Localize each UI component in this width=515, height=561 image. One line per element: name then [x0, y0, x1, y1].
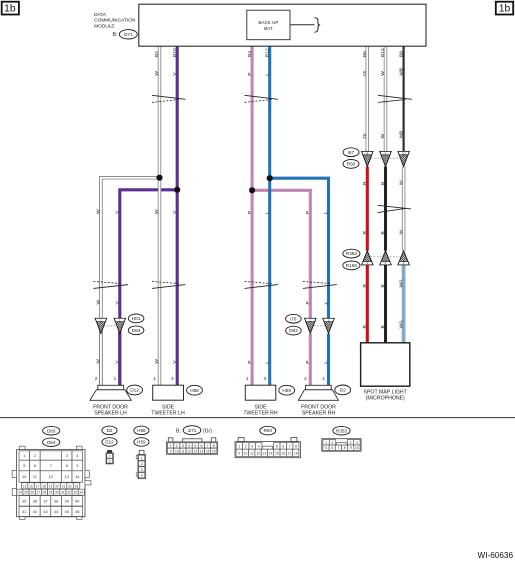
svg-text:3: 3	[66, 453, 68, 458]
wire WB from module pin B8 to joint connector i57	[403, 46, 405, 151]
svg-text:L: L	[264, 361, 270, 364]
svg-text:2: 2	[95, 376, 98, 381]
svg-text:L: L	[323, 211, 329, 214]
svg-text:1: 1	[153, 376, 156, 381]
connector pinout label D12	[102, 438, 117, 447]
dashed tie line H01 connectors	[101, 325, 120, 327]
svg-text:21: 21	[62, 484, 66, 488]
junction node L branch	[267, 175, 273, 181]
svg-text:39: 39	[65, 498, 69, 503]
inline connector H01/D84 terminal V	[114, 318, 125, 333]
svg-text:10: 10	[402, 151, 406, 155]
connector pinout R353	[322, 439, 361, 452]
svg-text:9: 9	[350, 446, 352, 450]
connector ref R353	[343, 249, 360, 258]
svg-text:P: P	[305, 361, 311, 364]
svg-text:B12: B12	[264, 48, 270, 57]
svg-text:43: 43	[43, 509, 47, 514]
svg-text:17: 17	[36, 484, 40, 488]
svg-text:D12: D12	[130, 388, 139, 393]
svg-text:8: 8	[295, 444, 297, 448]
connector ref H59	[279, 385, 295, 395]
twisted-pair symbol P/L speaker RH	[303, 281, 337, 288]
connector pinout D83/D84 grid	[12, 446, 91, 519]
junction node P branch	[249, 187, 255, 193]
svg-text:32: 32	[67, 491, 71, 495]
svg-text:W: W	[96, 209, 102, 214]
svg-text:3: 3	[182, 444, 184, 448]
svg-text:10: 10	[244, 451, 248, 455]
svg-text:7: 7	[50, 463, 52, 468]
twisted-pair symbol W/WB upper	[378, 95, 412, 102]
wire R from connector R50 to connector R353	[366, 167, 369, 251]
svg-text:15: 15	[206, 449, 210, 453]
svg-text:W: W	[154, 209, 160, 214]
svg-text:W/L: W/L	[398, 320, 404, 329]
svg-text:6: 6	[331, 446, 333, 450]
connector pinout R50	[235, 437, 301, 457]
connector pinout label D83	[43, 426, 60, 435]
connector pinout i271	[167, 438, 218, 455]
svg-text:SPOT MAP LIGHT(MICROPHONE): SPOT MAP LIGHT(MICROPHONE)	[364, 390, 408, 402]
svg-text:7: 7	[207, 444, 209, 448]
svg-text:28: 28	[43, 491, 47, 495]
svg-text:16: 16	[212, 449, 216, 453]
connector pinout label D2	[102, 426, 117, 435]
connector ref i57	[343, 148, 359, 157]
svg-text:B4: B4	[247, 51, 253, 57]
svg-text:35: 35	[22, 498, 26, 503]
svg-text:D84: D84	[47, 440, 56, 445]
svg-text:16: 16	[29, 484, 33, 488]
svg-text:i271: i271	[188, 428, 197, 433]
svg-text:8: 8	[344, 446, 346, 450]
connector pinout H58/H59	[136, 450, 145, 478]
wire V from module pin B10 to side tweeter LH pin 3	[176, 46, 179, 385]
svg-text:20: 20	[55, 484, 59, 488]
svg-text:8: 8	[213, 444, 215, 448]
svg-text:33: 33	[73, 491, 77, 495]
spot map light (microphone) box	[361, 343, 410, 386]
svg-text:12: 12	[256, 451, 260, 455]
svg-text:6: 6	[34, 463, 36, 468]
wire W from module pin B14 to joint connector i57	[384, 46, 387, 151]
component pin numbers	[95, 376, 326, 381]
svg-text:1: 1	[325, 441, 327, 445]
svg-text:W: W	[96, 359, 102, 364]
dashed tie line i57 connectors	[367, 157, 403, 159]
connector ref R166	[343, 261, 360, 270]
svg-text:L: L	[323, 361, 329, 364]
svg-text:30: 30	[55, 491, 59, 495]
svg-text:BACK UP: BACK UP	[258, 20, 278, 25]
svg-text:4: 4	[188, 444, 190, 448]
wire B from connector R166 to microphone	[384, 265, 387, 343]
svg-text:37: 37	[43, 498, 47, 503]
wire Or from module pin B6 to joint connector i57	[366, 46, 369, 151]
svg-text:(Gr): (Gr)	[203, 428, 212, 434]
wire W branch to front door speaker LH pin 2	[101, 178, 160, 385]
svg-text:H58: H58	[190, 388, 199, 393]
svg-text:i57: i57	[348, 150, 355, 155]
svg-text:P: P	[305, 211, 311, 214]
svg-text:B: B	[380, 182, 386, 185]
svg-text:FRONT DOORSPEAKER RH: FRONT DOORSPEAKER RH	[301, 404, 336, 416]
junction node V branch	[174, 187, 180, 193]
wire W from module pin B2 to side tweeter LH pin 1	[158, 46, 161, 385]
svg-text:38: 38	[54, 498, 58, 503]
wire V below connector D84 to speaker LH	[118, 334, 121, 385]
svg-text:B:: B:	[176, 428, 181, 434]
junction node W branch	[156, 175, 162, 181]
front door speaker LH symbol	[90, 385, 131, 400]
svg-text:36: 36	[33, 498, 37, 503]
svg-text:W: W	[380, 134, 386, 139]
svg-text:25: 25	[24, 491, 28, 495]
svg-text:13: 13	[263, 451, 267, 455]
front door speaker RH symbol	[298, 385, 338, 400]
inline connector i76/D83 terminal L	[323, 318, 334, 333]
svg-text:5: 5	[325, 446, 327, 450]
data communication module box	[139, 4, 426, 46]
svg-text:41: 41	[22, 509, 26, 514]
connector pinout D2/D12	[106, 450, 113, 464]
svg-text:R50: R50	[264, 428, 273, 433]
connector ref D84	[128, 326, 144, 335]
svg-text:15: 15	[275, 451, 279, 455]
twisted-pair symbol W/V upper	[152, 95, 186, 102]
svg-text:H59: H59	[137, 440, 146, 445]
wire W/L from connector R166 to microphone	[402, 265, 406, 343]
svg-text:D83: D83	[289, 328, 298, 333]
svg-text:R166: R166	[346, 263, 358, 268]
svg-text:3: 3	[350, 441, 352, 445]
svg-text:14: 14	[200, 449, 204, 453]
svg-text:D83: D83	[47, 428, 56, 433]
svg-text:B6: B6	[362, 51, 368, 57]
zone label 1b top-left	[2, 2, 19, 15]
svg-text:1: 1	[141, 456, 143, 460]
svg-text:B8: B8	[398, 51, 404, 57]
svg-text:W: W	[154, 359, 160, 364]
svg-text:9: 9	[76, 463, 78, 468]
svg-text:22: 22	[68, 484, 72, 488]
svg-text:R353: R353	[336, 428, 347, 433]
inline connector i76/D83 terminal P	[305, 318, 316, 333]
inline connector R353/R166 terminal B	[380, 251, 391, 265]
svg-text:5: 5	[194, 444, 196, 448]
svg-text:8: 8	[66, 463, 68, 468]
svg-text:10: 10	[355, 446, 359, 450]
svg-text:13: 13	[193, 449, 197, 453]
connector ref H01	[128, 314, 144, 323]
wire from back-up bat to brace	[290, 24, 315, 26]
svg-text:1: 1	[238, 444, 240, 448]
wire B from connector R50 to connector R353	[384, 167, 387, 251]
svg-text:D84: D84	[132, 328, 141, 333]
svg-text:7: 7	[289, 444, 291, 448]
svg-text:B2: B2	[154, 51, 160, 57]
svg-text:34: 34	[80, 491, 84, 495]
inline connector i57/R50 terminal W	[380, 151, 391, 166]
connector pinout label H58	[134, 426, 149, 435]
svg-text:7: 7	[337, 446, 339, 450]
svg-text:WB: WB	[398, 131, 404, 139]
svg-text:W: W	[398, 180, 404, 185]
svg-text:18: 18	[42, 484, 46, 488]
svg-text:W: W	[398, 230, 404, 235]
svg-text:W: W	[154, 71, 160, 76]
svg-text:26: 26	[30, 491, 34, 495]
svg-text:9: 9	[170, 449, 172, 453]
svg-text:L: L	[264, 211, 270, 214]
svg-text:2: 2	[141, 462, 143, 466]
svg-text:H58: H58	[137, 428, 146, 433]
svg-text:D2: D2	[340, 388, 346, 393]
svg-text:FRONT DOORSPEAKER LH: FRONT DOORSPEAKER LH	[93, 404, 128, 416]
twisted-pair symbol P/L upper	[245, 95, 278, 102]
wire L branch to front door speaker RH pin 1	[270, 178, 329, 385]
svg-text:W/L: W/L	[398, 279, 404, 288]
connector pinout label H59	[134, 438, 149, 447]
svg-text:2: 2	[332, 441, 334, 445]
svg-text:P: P	[305, 301, 311, 304]
brace symbol	[315, 18, 321, 32]
svg-text:P: P	[247, 361, 253, 364]
svg-text:Or: Or	[362, 133, 368, 139]
svg-text:3: 3	[141, 468, 143, 472]
svg-text:14: 14	[269, 451, 273, 455]
twisted-pair symbol W/V tweeter LH	[152, 281, 186, 288]
svg-text:1: 1	[246, 376, 249, 381]
svg-text:6: 6	[201, 444, 203, 448]
svg-text:H59: H59	[282, 388, 291, 393]
svg-text:1: 1	[114, 376, 117, 381]
dashed tie line R353 connectors	[367, 256, 403, 258]
connector ref D83	[286, 326, 302, 335]
connector pinout label B: i271 (Gr)	[176, 426, 212, 435]
svg-text:13: 13	[65, 474, 69, 479]
svg-text:12: 12	[187, 449, 191, 453]
svg-text:B10: B10	[172, 48, 178, 57]
inline connector i57/R50 terminal WB	[398, 151, 409, 166]
side tweeter LH box	[153, 385, 184, 400]
svg-text:L: L	[264, 73, 270, 76]
svg-text:3: 3	[251, 444, 253, 448]
svg-text:WI-60636: WI-60636	[478, 551, 514, 560]
svg-text:1b: 1b	[499, 4, 511, 15]
svg-text:11: 11	[33, 474, 37, 479]
svg-text:W: W	[380, 71, 386, 76]
back-up battery box	[247, 10, 290, 40]
section separator line	[0, 417, 515, 419]
svg-text:1: 1	[170, 444, 172, 448]
connector pinout label D84	[43, 438, 60, 447]
svg-text:42: 42	[33, 509, 37, 514]
inline connector R353/R166 terminal W/L	[398, 251, 409, 265]
svg-text:45: 45	[65, 509, 69, 514]
svg-text:2: 2	[176, 444, 178, 448]
svg-text:R50: R50	[347, 162, 356, 167]
svg-text:i271: i271	[124, 32, 133, 37]
svg-text:i76: i76	[290, 316, 297, 321]
svg-text:11: 11	[181, 449, 185, 453]
inline connector H01/D84 terminal W	[95, 318, 106, 333]
svg-text:2: 2	[304, 376, 307, 381]
wire V branch to front door speaker LH pin 1	[120, 190, 177, 385]
twisted-pair symbol P/L tweeter RH	[245, 281, 278, 288]
svg-text:12: 12	[49, 474, 53, 479]
svg-text:Or: Or	[362, 70, 368, 76]
svg-text:1: 1	[322, 376, 325, 381]
svg-text:D12: D12	[105, 440, 114, 445]
twisted-pair symbol W/V speaker LH	[93, 281, 128, 288]
svg-text:5: 5	[23, 463, 25, 468]
connector pinout label R50	[260, 426, 276, 435]
svg-text:BAT: BAT	[264, 26, 273, 31]
connector ref R50	[343, 160, 359, 169]
svg-text:29: 29	[49, 491, 53, 495]
svg-text:11: 11	[250, 451, 254, 455]
svg-text:46: 46	[75, 509, 79, 514]
connector ref D2	[335, 385, 351, 395]
svg-text:2: 2	[34, 453, 36, 458]
wire W below connector D84 to speaker LH	[99, 334, 102, 385]
svg-text:B: B	[380, 325, 386, 328]
svg-text:1: 1	[23, 453, 25, 458]
svg-text:16: 16	[281, 451, 285, 455]
svg-text:2: 2	[109, 459, 111, 463]
svg-text:R: R	[362, 181, 368, 185]
connector ref H58	[187, 385, 203, 395]
svg-text:4: 4	[356, 441, 358, 445]
connector ref D12	[127, 385, 143, 395]
svg-text:2: 2	[245, 444, 247, 448]
svg-text:4: 4	[141, 474, 143, 478]
svg-text:R: R	[362, 325, 368, 329]
wire L from module pin B12 to side tweeter RH pin 3	[268, 46, 271, 385]
wire P branch to front door speaker RH pin 2	[252, 190, 310, 385]
connector ref B: i271	[113, 30, 138, 39]
svg-text:27: 27	[37, 491, 41, 495]
svg-text:19: 19	[49, 484, 53, 488]
wire W from connector R50 to connector R353	[402, 167, 405, 251]
svg-text:17: 17	[288, 451, 292, 455]
zone label 1b top-right	[496, 2, 513, 15]
svg-text:R: R	[362, 284, 368, 288]
inline connector R353/R166 terminal R	[362, 251, 373, 265]
svg-text:B14: B14	[380, 48, 386, 57]
svg-text:5: 5	[276, 444, 278, 448]
svg-text:6: 6	[282, 444, 284, 448]
svg-text:W: W	[96, 300, 102, 305]
wire R from connector R166 to microphone	[366, 265, 369, 343]
connector ref i76	[286, 314, 302, 323]
svg-text:10: 10	[175, 449, 179, 453]
svg-text:P: P	[247, 73, 253, 76]
wire P from module pin B4 to side tweeter RH pin 1	[251, 46, 254, 385]
svg-text:R353: R353	[346, 251, 358, 256]
svg-text:3: 3	[171, 376, 174, 381]
svg-text:1b: 1b	[4, 4, 16, 15]
svg-text:B: B	[380, 284, 386, 287]
svg-text:23: 23	[75, 484, 79, 488]
svg-text:D2: D2	[107, 428, 113, 433]
svg-text:B: B	[380, 231, 386, 234]
svg-text:3: 3	[263, 376, 266, 381]
svg-text:P: P	[247, 211, 253, 214]
svg-text:15: 15	[23, 484, 27, 488]
svg-text:31: 31	[61, 491, 65, 495]
svg-text:18: 18	[294, 451, 298, 455]
svg-text:1: 1	[109, 454, 111, 458]
inline connector i57/R50 terminal Or	[362, 151, 373, 166]
dashed tie line i76 connectors	[310, 325, 328, 327]
svg-text:B:: B:	[113, 32, 118, 38]
svg-text:24: 24	[18, 491, 22, 495]
svg-text:4: 4	[258, 444, 260, 448]
twisted-pair symbol B/W microphone	[378, 205, 411, 212]
side tweeter RH box	[245, 385, 275, 400]
svg-text:R: R	[362, 231, 368, 235]
svg-text:WB: WB	[398, 68, 404, 76]
connector pinout label R353	[333, 426, 350, 435]
svg-text:9: 9	[238, 451, 240, 455]
svg-text:L: L	[323, 302, 329, 305]
svg-text:H01: H01	[132, 316, 141, 321]
